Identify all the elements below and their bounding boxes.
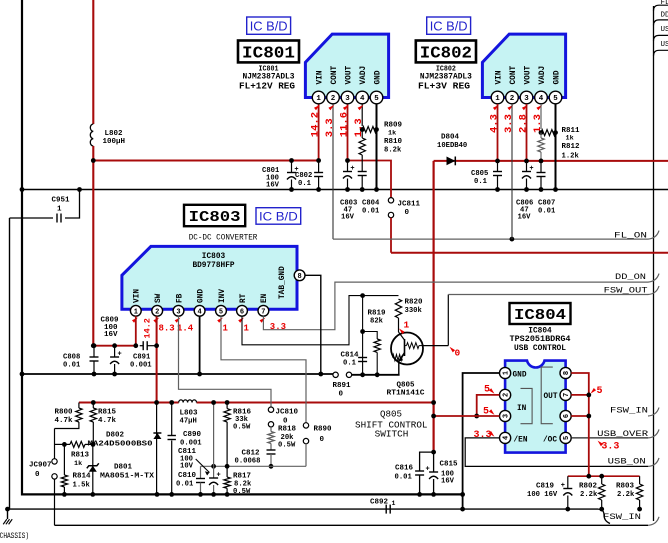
svg-text:1.3: 1.3: [353, 118, 365, 137]
svg-text:INV: INV: [219, 289, 227, 303]
svg-text:1.5k: 1.5k: [73, 482, 91, 490]
svg-text:BD9778HFP: BD9778HFP: [192, 262, 234, 270]
svg-text:82k: 82k: [370, 318, 384, 326]
svg-text:0.01: 0.01: [395, 474, 413, 482]
svg-text:R817: R817: [233, 473, 251, 481]
svg-text:C819: C819: [536, 483, 555, 491]
svg-text:JC811: JC811: [398, 201, 421, 209]
svg-text:3.3: 3.3: [503, 114, 515, 133]
svg-text:0.1: 0.1: [343, 360, 357, 368]
svg-text:R809: R809: [384, 122, 403, 130]
svg-text:FL+3V REG: FL+3V REG: [418, 82, 470, 92]
svg-text:1: 1: [223, 324, 229, 334]
svg-text:FSW_IN: FSW_IN: [610, 406, 648, 415]
svg-text:4: 4: [503, 436, 511, 440]
svg-text:IC804: IC804: [514, 307, 566, 324]
svg-text:EN: EN: [261, 293, 269, 303]
svg-text:1k: 1k: [566, 135, 574, 143]
svg-text:CONT: CONT: [510, 65, 518, 84]
svg-text:C892: C892: [370, 499, 389, 507]
svg-text:+: +: [529, 165, 533, 173]
svg-text:7: 7: [261, 308, 265, 316]
svg-text:R813: R813: [71, 452, 90, 460]
svg-text:0.001: 0.001: [130, 362, 152, 370]
svg-text:L803: L803: [180, 410, 199, 418]
svg-text:D804: D804: [441, 134, 460, 142]
svg-text:IC803: IC803: [202, 253, 226, 261]
svg-text:5: 5: [484, 385, 490, 396]
svg-text:SWITCH: SWITCH: [375, 428, 409, 439]
svg-text:TAB_GND: TAB_GND: [279, 266, 287, 299]
svg-text:R800: R800: [55, 409, 74, 417]
svg-text:C810: C810: [178, 472, 197, 480]
svg-text:MA24D5000BS0: MA24D5000BS0: [88, 441, 153, 449]
svg-text:1: 1: [244, 324, 250, 334]
svg-text:4.3: 4.3: [488, 114, 500, 133]
svg-text:1: 1: [495, 95, 500, 103]
svg-text:6: 6: [240, 308, 244, 316]
svg-text:+: +: [561, 482, 565, 490]
svg-text:GND: GND: [553, 70, 561, 84]
svg-text:5: 5: [597, 386, 603, 397]
svg-text:11.6: 11.6: [338, 112, 350, 137]
svg-text:7: 7: [563, 393, 571, 397]
svg-text:0.5W: 0.5W: [233, 424, 251, 432]
svg-text:D802: D802: [106, 432, 125, 440]
svg-text:IC801: IC801: [242, 45, 295, 64]
svg-text:0.01: 0.01: [63, 362, 81, 370]
svg-text:R818: R818: [278, 426, 297, 434]
svg-text:SW: SW: [155, 293, 163, 303]
svg-text:0: 0: [339, 391, 344, 399]
svg-text:GND: GND: [513, 372, 527, 380]
svg-text:4: 4: [360, 95, 365, 103]
svg-text:0.5W: 0.5W: [233, 488, 251, 496]
svg-text:FSW_IN: FSW_IN: [603, 513, 641, 522]
svg-text:0: 0: [405, 209, 410, 217]
svg-text:10V: 10V: [180, 463, 194, 471]
svg-text:IC804: IC804: [528, 328, 552, 336]
svg-text:USB CONTROL: USB CONTROL: [514, 345, 566, 353]
svg-text:1: 1: [404, 320, 410, 331]
svg-text:DD_ON: DD_ON: [661, 12, 668, 20]
svg-text:VADJ: VADJ: [539, 66, 547, 85]
svg-text:C808: C808: [63, 354, 80, 362]
svg-text:R891: R891: [333, 382, 352, 390]
svg-text:R810: R810: [384, 138, 403, 146]
svg-text:1.4: 1.4: [177, 324, 194, 334]
svg-text:+: +: [350, 165, 354, 173]
svg-text:USB_OVER: USB_OVER: [597, 430, 648, 439]
svg-text:C812: C812: [242, 450, 261, 458]
svg-text:1k: 1k: [74, 460, 82, 468]
svg-text:100µH: 100µH: [103, 138, 126, 146]
svg-text:5: 5: [553, 95, 558, 103]
svg-text:VIN: VIN: [495, 70, 503, 84]
svg-text:C891: C891: [133, 354, 151, 362]
svg-text:GND: GND: [374, 70, 382, 84]
svg-text:Q805: Q805: [380, 409, 402, 420]
svg-text:3: 3: [524, 95, 529, 103]
svg-text:(CHASSIS): (CHASSIS): [0, 532, 29, 541]
svg-text:1: 1: [316, 95, 321, 103]
svg-text:RT1N141C: RT1N141C: [387, 390, 426, 398]
svg-text:0: 0: [35, 471, 40, 479]
svg-text:DD_ON: DD_ON: [615, 273, 646, 282]
svg-text:FL+12V REG: FL+12V REG: [239, 82, 295, 92]
svg-text:1.2k: 1.2k: [562, 153, 580, 161]
svg-text:3: 3: [345, 95, 350, 103]
svg-text:3.3: 3.3: [474, 430, 492, 441]
svg-text:NJM2387ADL3: NJM2387ADL3: [243, 73, 295, 82]
svg-text:330k: 330k: [405, 307, 423, 315]
svg-text:R802: R802: [579, 483, 598, 491]
svg-text:16V: 16V: [518, 214, 532, 222]
svg-text:8.2k: 8.2k: [384, 147, 402, 155]
svg-text:10EDB40: 10EDB40: [437, 142, 467, 150]
svg-text:3: 3: [503, 414, 511, 418]
svg-text:TPS2051BDRG4: TPS2051BDRG4: [510, 336, 571, 344]
svg-text:R819: R819: [368, 310, 387, 318]
svg-text:100 16V: 100 16V: [527, 491, 558, 499]
svg-text:1: 1: [503, 371, 511, 375]
svg-text:0: 0: [320, 436, 325, 444]
svg-text:14.2: 14.2: [309, 112, 321, 137]
svg-text:5: 5: [374, 95, 379, 103]
svg-text:16V: 16V: [104, 331, 118, 339]
svg-text:5: 5: [219, 308, 223, 316]
svg-text:0.1: 0.1: [474, 178, 488, 186]
svg-text:NJM2387ADL3: NJM2387ADL3: [420, 73, 472, 82]
svg-text:0.0068: 0.0068: [235, 458, 261, 466]
svg-text:C890: C890: [183, 431, 202, 439]
svg-text:8: 8: [563, 371, 571, 375]
svg-text:2: 2: [155, 308, 159, 316]
svg-text:C815: C815: [440, 461, 459, 469]
svg-text:DC-DC CONVERTER: DC-DC CONVERTER: [189, 235, 258, 243]
svg-text:Q805: Q805: [397, 382, 416, 390]
svg-text:47µH: 47µH: [180, 418, 197, 426]
svg-text:C804: C804: [362, 200, 380, 208]
svg-text:VIN: VIN: [134, 289, 142, 303]
svg-text:+: +: [216, 472, 220, 480]
svg-text:IC B/D: IC B/D: [250, 18, 288, 33]
svg-text:8: 8: [297, 273, 301, 281]
svg-text:4.7k: 4.7k: [55, 417, 74, 425]
svg-text:C951: C951: [52, 197, 71, 205]
svg-text:5: 5: [563, 436, 571, 440]
svg-text:FSW_OUT: FSW_OUT: [604, 287, 648, 296]
svg-text:C807: C807: [538, 200, 555, 208]
svg-text:FL_ON: FL_ON: [661, 0, 668, 7]
svg-text:VOUT: VOUT: [345, 65, 353, 84]
svg-text:IC803: IC803: [189, 209, 241, 226]
svg-text:2: 2: [510, 95, 515, 103]
svg-text:C805: C805: [471, 170, 488, 178]
svg-text:1: 1: [392, 500, 396, 507]
svg-text:USB_ON: USB_ON: [661, 41, 668, 49]
svg-text:6: 6: [563, 414, 571, 418]
svg-text:+: +: [425, 466, 429, 474]
svg-text:R812: R812: [562, 143, 581, 151]
svg-text:2: 2: [331, 95, 336, 103]
svg-text:R814: R814: [73, 473, 92, 481]
svg-text:0: 0: [455, 348, 461, 359]
svg-text:USB_ON: USB_ON: [608, 457, 646, 466]
svg-text:JC810: JC810: [276, 409, 299, 417]
svg-text:CONT: CONT: [331, 65, 339, 84]
svg-text:FB: FB: [176, 293, 184, 303]
svg-text:RT: RT: [240, 293, 248, 303]
svg-text:L802: L802: [105, 130, 124, 138]
svg-text:C802: C802: [295, 172, 312, 180]
svg-text:0.1: 0.1: [298, 180, 312, 188]
svg-text:0.001: 0.001: [180, 440, 202, 448]
svg-text:VOUT: VOUT: [524, 65, 532, 84]
svg-text:14.2: 14.2: [142, 318, 152, 338]
svg-text:R815: R815: [98, 409, 117, 417]
svg-text:16V: 16V: [341, 214, 355, 222]
svg-text:D801: D801: [114, 464, 133, 472]
svg-text:GND: GND: [197, 289, 205, 303]
svg-text:R820: R820: [405, 299, 424, 307]
svg-text:R890: R890: [314, 426, 333, 434]
svg-text:2.8: 2.8: [517, 114, 529, 133]
svg-text:IC B/D: IC B/D: [259, 209, 298, 223]
svg-text:16V: 16V: [266, 182, 280, 190]
svg-text:4: 4: [539, 95, 544, 103]
svg-text:VADJ: VADJ: [360, 66, 368, 85]
svg-text:3.3: 3.3: [601, 441, 619, 452]
svg-text:1k: 1k: [388, 130, 396, 138]
svg-text:4: 4: [197, 308, 201, 316]
svg-text:1: 1: [134, 308, 138, 316]
svg-text:0.01: 0.01: [176, 481, 194, 489]
svg-text:2.2k: 2.2k: [580, 491, 598, 499]
svg-text:2: 2: [503, 393, 511, 397]
svg-text:3.3: 3.3: [324, 118, 336, 137]
svg-text:IC B/D: IC B/D: [430, 18, 468, 33]
svg-text:VIN: VIN: [316, 70, 324, 84]
svg-text:0: 0: [283, 418, 288, 426]
svg-text:0.01: 0.01: [538, 208, 556, 216]
svg-text:JC907: JC907: [29, 462, 52, 470]
svg-text:8.3: 8.3: [159, 324, 175, 334]
svg-text:R803: R803: [616, 483, 635, 491]
svg-text:1: 1: [57, 206, 62, 214]
svg-text:/OC: /OC: [543, 436, 557, 444]
svg-text:MA8051-M-TX: MA8051-M-TX: [100, 473, 155, 481]
svg-text:0.5W: 0.5W: [278, 442, 296, 450]
svg-text:16V: 16V: [441, 478, 455, 486]
svg-text:C814: C814: [341, 352, 360, 360]
svg-text:+: +: [117, 351, 121, 359]
svg-text:OUT: OUT: [544, 393, 558, 401]
svg-text:3: 3: [176, 308, 180, 316]
svg-text:/EN: /EN: [514, 436, 528, 444]
svg-text:IC802: IC802: [420, 45, 472, 64]
svg-text:0.01: 0.01: [362, 208, 380, 216]
svg-text:IN: IN: [517, 405, 527, 413]
svg-text:2.2k: 2.2k: [617, 491, 635, 499]
svg-text:FL_ON: FL_ON: [614, 231, 647, 240]
svg-text:5: 5: [483, 406, 489, 417]
svg-text:4.7k: 4.7k: [98, 417, 117, 425]
svg-text:USB_OVER: USB_OVER: [661, 26, 668, 34]
svg-text:C816: C816: [395, 465, 414, 473]
